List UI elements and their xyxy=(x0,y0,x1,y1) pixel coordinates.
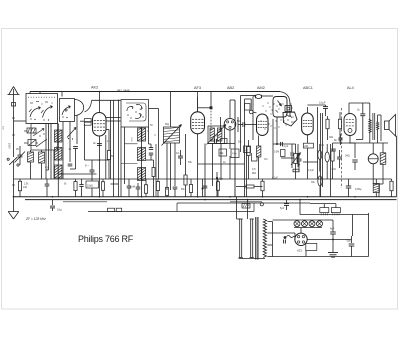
svg-text:5μF: 5μF xyxy=(280,207,285,210)
value labels sprinkle xyxy=(2,124,336,171)
svg-text:AK2: AK2 xyxy=(91,86,98,90)
AL4 left small cap xyxy=(334,134,343,145)
ABC1 decoupling caps xyxy=(291,144,331,197)
oscillator coil stack L3 xyxy=(138,127,146,141)
label ZF 128 kHz xyxy=(25,217,46,221)
left cluster verticals xyxy=(46,124,54,179)
label 981.2448 xyxy=(117,88,130,92)
voltage selector row xyxy=(273,220,326,228)
box2 lower wires xyxy=(8,116,97,186)
svg-text:34Ω: 34Ω xyxy=(345,155,350,158)
ABC1 verticals xyxy=(318,107,323,197)
coil resistor hatched 2 xyxy=(39,150,45,179)
svg-text:50μ: 50μ xyxy=(347,240,352,243)
oscillator stack links xyxy=(121,137,138,164)
power wiring right xyxy=(273,200,369,257)
output bottom components xyxy=(321,179,394,197)
heater inline box 1 xyxy=(108,208,115,211)
oscillator coil stack L5 xyxy=(138,161,146,197)
label AK2 xyxy=(91,86,98,90)
mains transformer core xyxy=(256,217,258,260)
wire IF link top xyxy=(149,109,159,197)
eye shield shape xyxy=(283,112,297,126)
AVC network row xyxy=(272,142,299,180)
svg-text:d g: d g xyxy=(45,165,49,169)
annotation dots spray xyxy=(260,101,294,129)
power ground hatch xyxy=(328,253,338,258)
svg-text:Philips 766 RF: Philips 766 RF xyxy=(78,234,134,244)
chassis bus lower xyxy=(25,199,397,201)
loudspeaker xyxy=(378,115,396,142)
svg-text:0,1: 0,1 xyxy=(176,151,180,155)
cap 5uF at supply rail xyxy=(280,200,289,210)
label ABC1 xyxy=(303,86,313,90)
AF3 plate bus wire xyxy=(198,92,280,131)
svg-text:0,1μF: 0,1μF xyxy=(319,102,326,105)
ABC1 grid box xyxy=(303,143,313,179)
bias components row xyxy=(18,179,159,197)
AZ1 cathode squiggle xyxy=(284,236,295,244)
svg-text:0,05μ: 0,05μ xyxy=(355,188,362,191)
heater wire xyxy=(88,203,254,212)
tube AB2 duodiode xyxy=(224,118,236,149)
svg-text:0,1μF: 0,1μF xyxy=(308,170,315,172)
magic eye screen box xyxy=(273,97,287,118)
svg-text:AZ1: AZ1 xyxy=(297,249,303,253)
filter cap 8uF xyxy=(347,236,355,257)
svg-text:50n: 50n xyxy=(237,120,242,123)
oscillator trimmers right xyxy=(130,127,156,197)
svg-text:0,1μ: 0,1μ xyxy=(57,208,63,212)
svg-text:g ~: g ~ xyxy=(85,163,89,167)
variable capacitor tuning gang xyxy=(162,92,182,191)
antenna trimmer xyxy=(15,146,26,165)
tube AM2 triode section xyxy=(249,110,268,135)
AF3 stage wires xyxy=(205,144,235,197)
band switch cluster xyxy=(24,124,58,151)
svg-text:170Ω: 170Ω xyxy=(330,168,336,171)
supply rail xyxy=(63,202,310,212)
eye target box xyxy=(285,106,292,112)
ABC1 resistors xyxy=(326,112,342,151)
IF transformer T1 xyxy=(207,125,227,145)
wire to earth xyxy=(13,166,15,212)
antenna coil stack A1 xyxy=(55,124,62,143)
oscillator wires left bundle xyxy=(111,100,125,197)
eye wiring curve xyxy=(253,92,290,118)
antenna coil stack A2 xyxy=(55,142,62,160)
output transformer T2 xyxy=(368,103,379,143)
dashed control link xyxy=(341,108,343,188)
svg-text:0,1μF: 0,1μF xyxy=(272,178,279,180)
svg-text:100p: 100p xyxy=(214,135,220,138)
svg-text:50p: 50p xyxy=(165,123,170,126)
svg-text:100: 100 xyxy=(23,186,28,189)
svg-text:10kΩ: 10kΩ xyxy=(87,184,93,187)
label AB2 xyxy=(227,86,234,90)
AL4 plate wiring xyxy=(349,103,368,114)
svg-text:100p: 100p xyxy=(232,153,238,155)
transformer feed wires xyxy=(237,197,273,259)
svg-text:1M: 1M xyxy=(264,158,267,161)
antenna coil stack A3 xyxy=(55,160,62,197)
chassis bus upper xyxy=(14,196,397,198)
mains fuse 2 xyxy=(331,208,340,216)
AB2 stage wires xyxy=(221,96,256,197)
bus decoupling cap 0.1u xyxy=(50,200,63,212)
rail inline box 3 xyxy=(242,204,250,209)
tube AL4 output pentode xyxy=(344,114,356,136)
svg-text:0,5: 0,5 xyxy=(252,168,256,171)
mains fuse 1 xyxy=(320,208,329,216)
speaker return wire xyxy=(396,136,397,197)
svg-text:4μF: 4μF xyxy=(330,228,335,231)
AL4 cathode components xyxy=(331,143,358,179)
AF3 screen components xyxy=(176,134,204,197)
label AL4 xyxy=(347,86,354,90)
AZ1 socket box xyxy=(273,233,317,250)
speaker field coil xyxy=(349,143,388,197)
svg-text:AL4: AL4 xyxy=(347,86,354,90)
wire antenna feed xyxy=(14,121,26,157)
mains switch wires xyxy=(310,204,336,208)
earth ground symbol xyxy=(8,212,19,220)
svg-text:10μ: 10μ xyxy=(291,157,296,160)
tone capacitor 2n xyxy=(350,103,365,143)
svg-text:ABC1: ABC1 xyxy=(303,86,313,90)
coil resistor hatched 1 xyxy=(28,150,34,179)
label AM2 xyxy=(257,86,265,90)
junction dots buses xyxy=(52,196,356,200)
svg-text:50n: 50n xyxy=(238,141,243,144)
filter cap 4uF xyxy=(307,220,351,253)
bottom components osc xyxy=(136,179,148,197)
AGC bus wire xyxy=(14,178,209,180)
RF switch box S3 xyxy=(60,99,92,122)
top bus wire left xyxy=(30,91,211,101)
mains transformer primary windings xyxy=(239,219,254,258)
switch antenna-earth xyxy=(7,157,19,166)
detector bottom components xyxy=(203,172,263,197)
mains transformer secondary winding xyxy=(263,219,272,258)
tube AK2 octode xyxy=(93,92,107,137)
AM2 bottom verticals xyxy=(208,117,321,179)
oscillator switch box xyxy=(121,100,149,128)
svg-text:AM2: AM2 xyxy=(257,86,265,90)
svg-text:0,5M: 0,5M xyxy=(274,152,279,154)
svg-text:AB2: AB2 xyxy=(227,86,234,90)
coupling capacitor to ABC1 xyxy=(307,102,328,117)
svg-text:1000: 1000 xyxy=(8,143,11,149)
title Philips 766 RF xyxy=(78,234,134,244)
label AF3 xyxy=(194,86,201,90)
tuning cap bottom wires xyxy=(165,143,177,197)
detector caps cluster top xyxy=(212,139,227,144)
grid capacitor AK2 xyxy=(80,118,121,126)
tube AF3 IF pentode xyxy=(191,97,205,197)
AK2 cathode components xyxy=(85,124,115,197)
heater inline box 2 xyxy=(116,208,122,211)
tube ABC1 diode triode xyxy=(302,107,314,143)
AM2 cathode components xyxy=(237,120,264,197)
rail connector circle xyxy=(260,203,263,206)
wave switch box S2 xyxy=(26,94,58,124)
tube AZ1 rectifier xyxy=(295,228,307,253)
antenna xyxy=(8,87,20,122)
svg-text:AF3: AF3 xyxy=(194,86,201,90)
volume potentiometer xyxy=(291,144,301,179)
svg-text:0,1μF: 0,1μF xyxy=(282,145,289,148)
svg-text:ZF = 128 kHz: ZF = 128 kHz xyxy=(25,217,46,221)
svg-text:MΩ: MΩ xyxy=(252,172,256,175)
oscillator coil stack L4 xyxy=(138,141,146,161)
detector small boxes xyxy=(198,146,257,179)
